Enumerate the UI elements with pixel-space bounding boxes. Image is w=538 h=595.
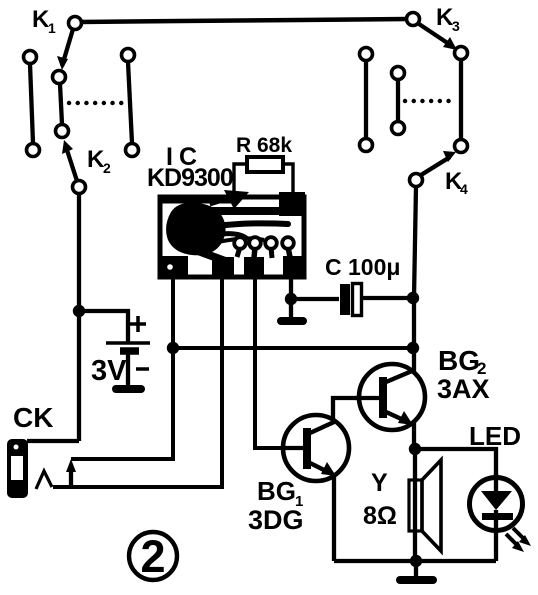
capacitor C 100u	[340, 284, 362, 316]
switch K3	[407, 13, 468, 60]
node cap right junction	[407, 292, 419, 304]
svg-text:3AX: 3AX	[437, 374, 490, 404]
svg-text:3V: 3V	[91, 355, 127, 387]
wire C right	[362, 296, 414, 300]
mechanical link dotted left	[69, 101, 124, 105]
IC bond wire a	[210, 198, 232, 205]
ground under C	[281, 299, 303, 321]
svg-text:KD9300: KD9300	[147, 164, 233, 192]
svg-text:2: 2	[103, 160, 111, 176]
wire BG1 collector to BG2 base	[333, 398, 357, 424]
IC pad bottom 1	[160, 256, 188, 277]
IC pad bottom 3	[244, 257, 264, 277]
IC pad hole 1	[234, 237, 246, 257]
IC pad hole 2	[249, 237, 261, 258]
IC bond bar 2	[216, 223, 288, 226]
LED light rays	[506, 528, 531, 552]
label +	[130, 316, 146, 332]
svg-text:CK: CK	[13, 402, 53, 433]
node battery junction	[73, 305, 85, 317]
wire K2 down left side	[77, 194, 81, 441]
svg-text:2: 2	[140, 531, 165, 582]
svg-text:3DG: 3DG	[248, 505, 304, 535]
contact pair mid-right	[360, 48, 373, 152]
label minus	[136, 367, 149, 371]
wire K4 down to BG2	[414, 186, 416, 371]
svg-text:Y: Y	[371, 469, 388, 497]
wire LED bottom	[494, 528, 498, 561]
node pin1 rail junction	[167, 342, 179, 354]
IC bond trace b	[220, 234, 248, 240]
svg-text:BG: BG	[257, 476, 296, 506]
switch K2	[56, 125, 86, 194]
jack spring contact	[36, 471, 52, 489]
contact pair right	[392, 67, 405, 135]
svg-text:R 68k: R 68k	[236, 134, 292, 157]
IC pad hole 3	[265, 237, 277, 258]
wire to LED top	[415, 449, 496, 478]
wire junction to battery top	[79, 311, 128, 344]
IC bond trace c	[218, 238, 264, 242]
IC chip blob	[166, 203, 225, 256]
svg-text:BG: BG	[438, 345, 480, 376]
svg-text:3: 3	[452, 18, 460, 34]
contact pair second-left	[122, 49, 139, 157]
svg-text:8Ω: 8Ω	[363, 502, 397, 530]
IC pad hole 4	[282, 237, 294, 257]
node bottom junction	[410, 555, 422, 567]
LED D1	[470, 473, 523, 531]
switch K4	[410, 140, 468, 187]
IC top triangle	[224, 190, 249, 209]
wire K1 to K2 column	[60, 84, 62, 124]
IC pad bottom 2	[212, 257, 234, 277]
IC bond bar 1	[210, 207, 292, 215]
speaker Y 8ohm	[409, 460, 441, 551]
transistor BG1	[283, 415, 349, 481]
node rail right junction	[407, 342, 419, 354]
IC pad top-right	[279, 192, 305, 216]
IC top edge thick bar	[160, 195, 238, 204]
wire BG1 emitter down	[332, 475, 336, 561]
wire K3 to K4 column	[459, 60, 463, 139]
wire top rail K1 to K3	[80, 19, 408, 22]
battery B 3V	[106, 343, 150, 389]
node C left junction	[285, 293, 297, 305]
svg-text:LED: LED	[469, 421, 521, 451]
wire IC pin3 to BG1 base	[255, 277, 284, 448]
wire IC pin4 stub to C	[289, 277, 293, 299]
mechanical link dotted right	[405, 99, 455, 103]
contact pair left	[24, 51, 40, 157]
node speaker top junction	[409, 443, 421, 455]
resistor R1 68k	[234, 157, 293, 196]
wire bottom rail	[334, 559, 496, 563]
wire jack tip to left rail	[27, 439, 79, 443]
figure number 2	[129, 531, 177, 582]
svg-text:C 100μ: C 100μ	[325, 254, 400, 280]
wire IC pin1 down and left	[71, 277, 173, 459]
IC U1 KD9300 board	[160, 197, 304, 277]
transistor BG2	[355, 364, 425, 430]
wire speaker vertical	[413, 449, 417, 561]
ground bottom	[400, 561, 433, 580]
switch K1	[53, 17, 82, 84]
wire BG2 emitter down	[412, 423, 416, 450]
wire C left	[291, 297, 339, 301]
svg-text:1: 1	[48, 20, 56, 36]
jack CK	[7, 439, 28, 498]
IC pad bottom-right	[283, 256, 304, 277]
wire mid rail	[173, 346, 414, 350]
svg-text:4: 4	[460, 181, 468, 197]
jack switch arrow	[66, 459, 76, 487]
wire IC pin2 down to jack contact	[53, 277, 222, 487]
